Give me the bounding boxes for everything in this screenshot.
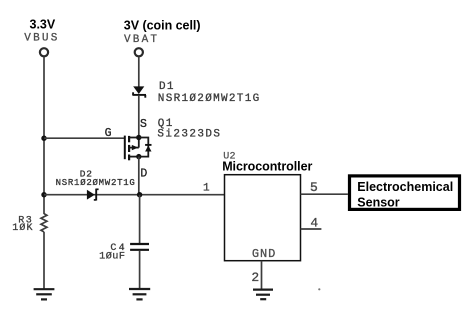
diode D1 schottky xyxy=(132,86,146,97)
terminal VBAT xyxy=(135,48,143,56)
node junction VBUS-D2 xyxy=(41,192,46,197)
svg-text:3V (coin cell): 3V (coin cell) xyxy=(124,18,201,32)
svg-text:2: 2 xyxy=(251,270,259,285)
svg-text:Si2323DS: Si2323DS xyxy=(157,128,221,140)
wire VBAT to D1 xyxy=(138,57,140,87)
terminal VBUS xyxy=(40,48,48,56)
wire C4 to ground xyxy=(139,251,141,289)
ground left xyxy=(34,289,55,299)
node junction drain-C4 xyxy=(137,192,142,197)
svg-text:1: 1 xyxy=(203,182,210,194)
svg-text:Electrochemical: Electrochemical xyxy=(357,180,453,194)
svg-text:1ØK: 1ØK xyxy=(12,222,33,234)
wire D2 row xyxy=(44,194,225,196)
block Electrochemical Sensor xyxy=(350,176,460,210)
wire D1 to Q1 source xyxy=(138,96,140,138)
IC U2 box xyxy=(225,175,301,261)
wire pin5 to sensor xyxy=(301,193,348,195)
wire pin2 to ground xyxy=(261,261,263,289)
resistor R3 xyxy=(41,214,47,232)
capacitor C4 xyxy=(130,244,149,250)
wire R3 to ground xyxy=(43,232,45,289)
svg-text:5: 5 xyxy=(310,180,318,195)
svg-text:D1: D1 xyxy=(159,81,175,93)
svg-text:S: S xyxy=(140,118,147,131)
svg-text:GND: GND xyxy=(252,247,276,261)
node junction VBUS-gate xyxy=(41,136,46,141)
body diode of Q1 xyxy=(139,138,152,157)
node Q1 source junction xyxy=(136,135,141,140)
svg-text:Microcontroller: Microcontroller xyxy=(222,160,312,174)
svg-text:VBAT: VBAT xyxy=(124,34,159,46)
ground U2 xyxy=(253,290,273,300)
wire to C4 xyxy=(139,195,141,243)
diode D2 schottky xyxy=(87,189,99,201)
wire pin4 stub xyxy=(301,228,322,230)
svg-text:1ØuF: 1ØuF xyxy=(99,251,125,263)
ground C4 xyxy=(129,289,150,299)
transistor Q1 P-MOSFET xyxy=(125,136,139,161)
stray dot xyxy=(318,288,320,290)
node Q1 drain junction xyxy=(136,154,141,159)
wire Q1 drain down xyxy=(138,157,140,195)
svg-text:G: G xyxy=(105,127,112,140)
wire VBUS vertical top xyxy=(43,57,45,214)
svg-text:3.3V: 3.3V xyxy=(30,18,56,32)
svg-text:NSR1Ø2ØMW2T1G: NSR1Ø2ØMW2T1G xyxy=(56,178,136,188)
svg-text:D: D xyxy=(140,167,147,180)
svg-text:VBUS: VBUS xyxy=(24,32,59,44)
wire gate xyxy=(44,137,124,139)
svg-text:Sensor: Sensor xyxy=(357,196,400,210)
svg-text:NSR1Ø2ØMW2T1G: NSR1Ø2ØMW2T1G xyxy=(158,93,261,105)
